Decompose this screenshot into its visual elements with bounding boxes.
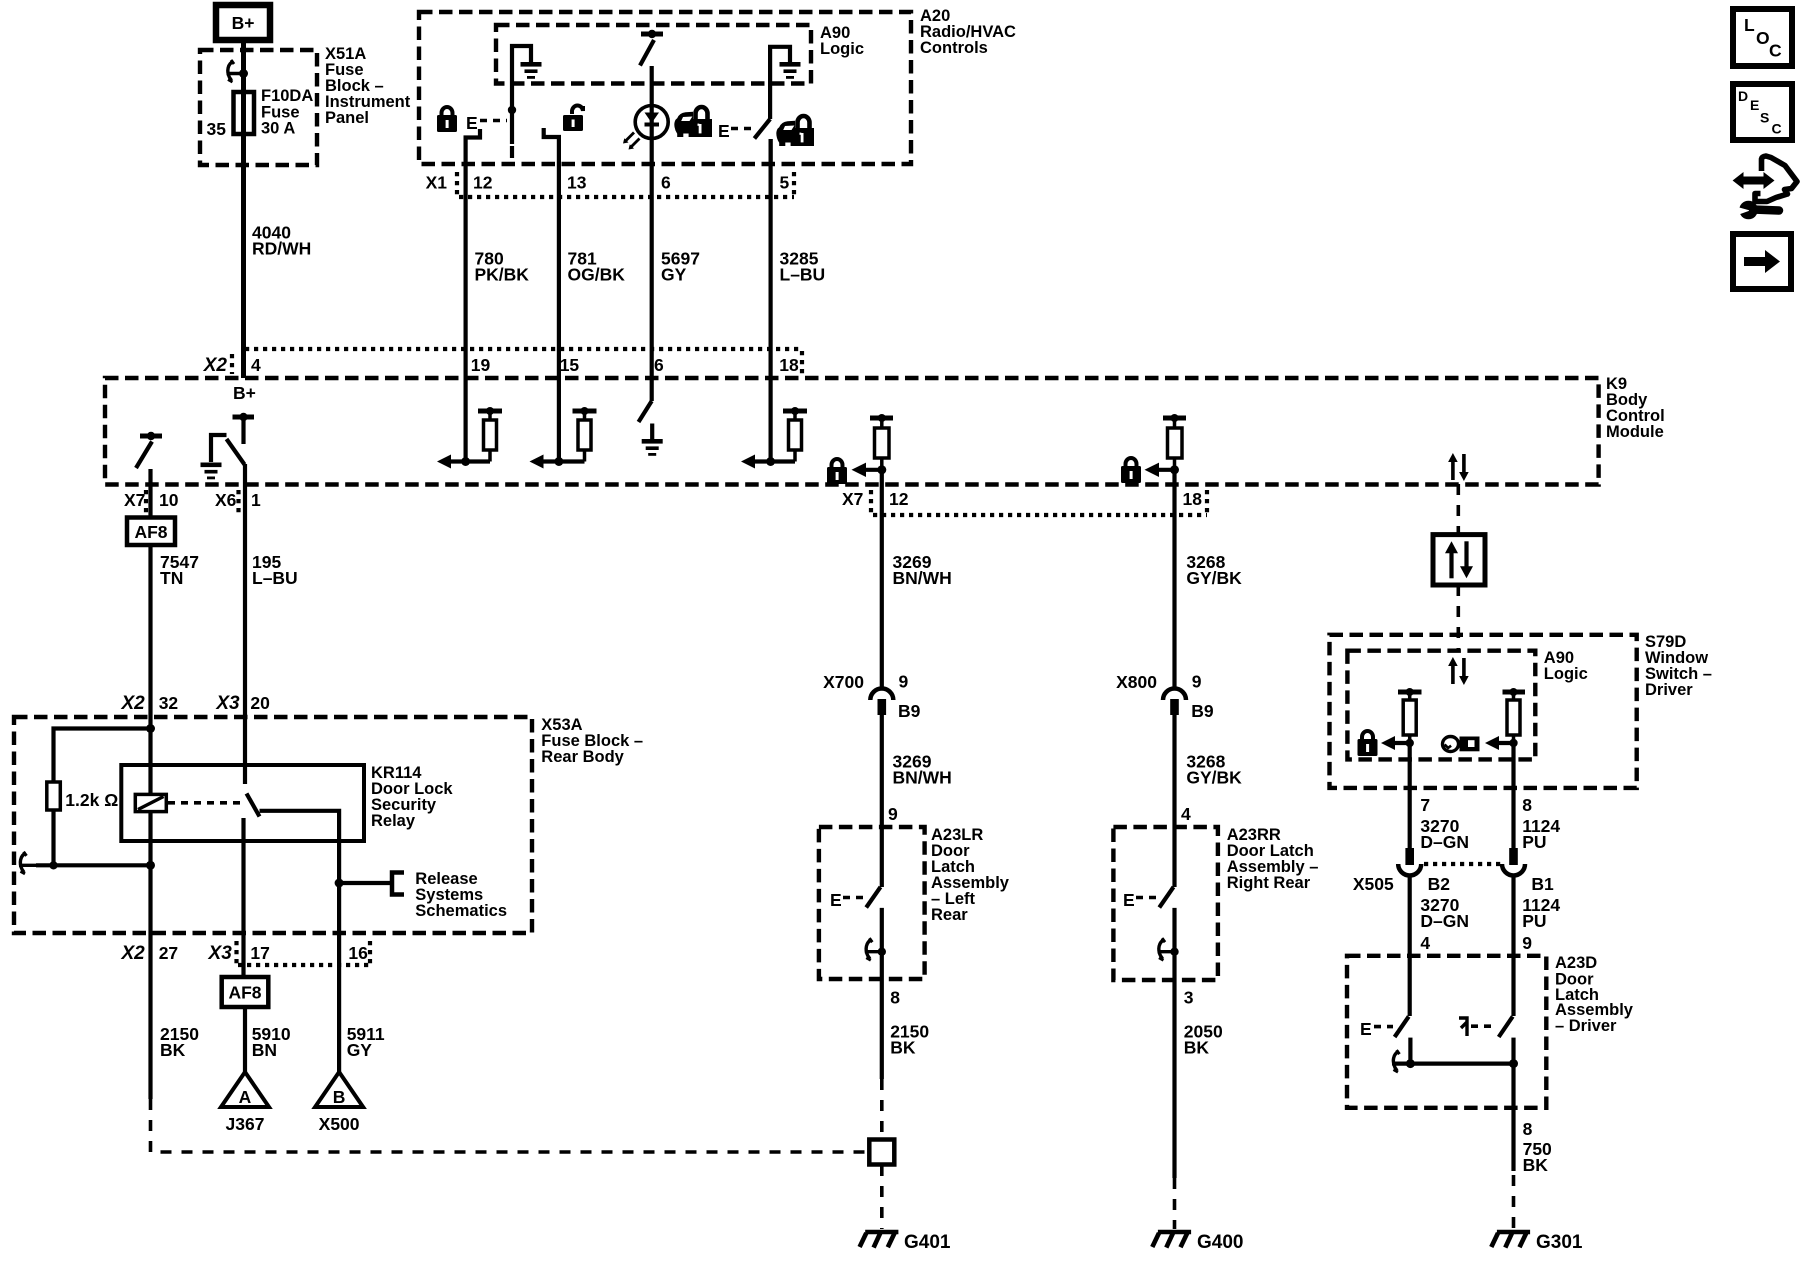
AF8 inline fuse box bottom [222,977,269,1007]
svg-text:6: 6 [654,355,664,375]
wire 5911 GY [337,933,341,1072]
fuse F10DA rectangle [234,92,255,134]
relay output branch to pin 16 [260,811,340,933]
wire 1124 PU lower / pin 9 [1514,876,1561,957]
wire through fuse [241,92,246,134]
svg-text:10: 10 [159,490,179,510]
svg-text:18: 18 [779,355,799,375]
svg-text:X3: X3 [215,693,240,714]
svg-text:12: 12 [889,489,909,509]
svg-text:Module: Module [1606,423,1664,441]
wire 5910 BN [243,1007,247,1072]
A23RR latch pawl contact [1158,938,1179,960]
svg-text:D–GN: D–GN [1420,832,1469,852]
S79D key-unlock driver [1485,688,1525,788]
ground G400 [1152,1232,1243,1253]
svg-text:L: L [1744,15,1755,35]
svg-text:G301: G301 [1536,1232,1583,1253]
legend icon right-arrow box [1733,234,1791,289]
svg-text:GY: GY [347,1040,373,1060]
svg-text:E: E [466,113,478,133]
BCM lock driver (pin 18 right) [1145,414,1187,484]
wire into X53A down to coil [148,717,152,794]
BCM internal relay contact to ground (X6/1) [201,413,255,484]
wire 2050 BK [1172,980,1176,1178]
svg-text:E: E [1360,1019,1372,1039]
svg-text:20: 20 [250,693,270,713]
svg-text:PK/BK: PK/BK [475,265,530,285]
svg-text:GY/BK: GY/BK [1186,768,1242,788]
car lock icon left [674,107,712,137]
relay armature blade [247,794,260,817]
svg-text:Logic: Logic [1544,665,1588,683]
svg-text:1: 1 [251,490,261,510]
svg-text:C: C [1772,121,1782,137]
svg-text:35: 35 [207,119,227,139]
wire 195 upper segment into relay [243,717,247,784]
svg-text:A: A [239,1087,252,1107]
svg-text:1.2k Ω: 1.2k Ω [65,790,118,810]
svg-text:BN/WH: BN/WH [893,768,952,788]
resistor 1.2k ohm [47,782,61,810]
svg-text:GY/BK: GY/BK [1186,568,1242,588]
relay mechanical dashed link [168,801,240,805]
wire 3270 D-GN lower / pin 4 [1410,876,1469,957]
BCM driver output pin 19 [437,378,502,469]
svg-text:J367: J367 [226,1114,265,1134]
splice junction box [869,1140,894,1165]
svg-text:Rear Body: Rear Body [541,748,624,766]
svg-text:RD/WH: RD/WH [252,239,311,259]
svg-text:BK: BK [890,1038,916,1058]
svg-text:E: E [718,121,730,141]
svg-text:15: 15 [560,355,580,375]
label X51A Fuse Block - Instrument Panel [325,45,411,127]
closed padlock icon at pin-18 driver [1121,458,1141,483]
legend icon DESC box [1733,84,1792,140]
svg-text:X6: X6 [215,490,237,510]
svg-text:Schematics: Schematics [415,902,507,920]
svg-text:L–BU: L–BU [252,568,298,588]
wire 3268 GY/BK upper [1172,484,1176,688]
wire 7547 TN [148,545,152,717]
svg-text:Driver: Driver [1645,681,1693,699]
wire 3269 BN/WH lower [880,715,884,827]
pin 8 / wire 1124 PU upper [1514,788,1561,852]
inline connector X800 pin 9/B9 [1116,672,1214,722]
svg-text:B9: B9 [1191,701,1214,721]
closed padlock icon in S79D [1358,731,1378,756]
dashed to G301 [1512,1175,1516,1229]
A23D common bus with pawl [1392,1050,1518,1072]
wire 195 lower segment out of relay [241,818,245,933]
wire A20 pin 6 (5697 GY) [650,138,654,378]
X7 connector bracket under BCM right (pins 12,18) [842,489,1207,515]
B+ battery feed box [216,5,270,40]
svg-text:AF8: AF8 [228,983,261,1003]
svg-text:Rear: Rear [931,906,968,924]
bottom branch line with pawl contact [19,852,155,874]
svg-text:8: 8 [1523,1119,1533,1139]
junction dot [239,69,248,78]
svg-text:30 A: 30 A [261,120,295,138]
svg-text:OG/BK: OG/BK [568,265,626,285]
dashed to G401 [880,1165,884,1229]
label A23LR Door Latch Assembly - Left Rear [931,826,1010,924]
svg-text:32: 32 [159,693,179,713]
svg-text:B2: B2 [1428,874,1451,894]
svg-text:Right Rear: Right Rear [1227,874,1311,892]
svg-text:4: 4 [1420,933,1430,953]
ground G301 [1491,1232,1583,1253]
svg-text:X500: X500 [319,1114,360,1134]
window logic up/down arrows in S79D [1448,657,1469,685]
legend icon LOC box [1733,9,1792,66]
wire X3/17 to AF8 [241,933,245,977]
release systems tap [335,873,404,895]
svg-text:9: 9 [1522,933,1532,953]
A23RR lock switch [1123,827,1175,980]
label X53A Fuse Block - Rear Body [541,716,643,766]
A20 right internal ground [770,47,800,119]
svg-text:X505: X505 [1353,874,1394,894]
ground G401 [860,1232,951,1253]
svg-text:Panel: Panel [325,109,369,127]
svg-text:BK: BK [160,1040,186,1060]
wire through coil to X2/27 [148,812,152,933]
svg-text:X7: X7 [124,490,145,510]
label S79D Window Switch - Driver [1645,633,1712,699]
svg-text:5: 5 [780,173,790,193]
label A23D Door Latch Assembly - Driver [1555,954,1634,1035]
svg-text:D: D [1738,88,1748,104]
svg-text:D–GN: D–GN [1420,911,1469,931]
svg-text:O: O [1756,28,1770,48]
connector triangle B (X500) [315,1072,363,1134]
BCM lock driver (X7/12) [852,414,894,484]
X2 connector row (BCM top) [203,349,802,376]
wire 3268 GY/BK lower [1172,715,1176,827]
S79D lock output driver [1381,688,1422,788]
label A23RR Door Latch Assembly - Right Rear [1227,826,1319,892]
BCM internal switch left (X7/10) [136,432,162,484]
svg-text:4: 4 [1181,804,1191,824]
wire 3269 BN/WH upper [880,484,884,688]
dashed wire BCM to window switch [1457,484,1461,535]
svg-text:6: 6 [661,173,671,193]
svg-text:B1: B1 [1531,874,1554,894]
unlocked padlock icon (pin 13) [563,105,583,131]
pawl contact at fuse feed [227,60,244,82]
svg-text:X2: X2 [120,943,145,964]
wire 2150 BK right [880,979,884,1079]
BCM window logic up/down arrows [1448,453,1469,481]
connector triangle A (J367) [221,1072,269,1134]
X2/32 X3/20 connector row [120,693,270,714]
A20 left internal ground [512,46,542,110]
A23LR Door Latch Assembly dashed box [819,827,925,979]
unlock command switch (pin 5) [754,119,770,164]
svg-text:9: 9 [899,672,909,692]
svg-text:18: 18 [1183,489,1203,509]
svg-text:G400: G400 [1197,1232,1243,1253]
svg-text:X700: X700 [823,672,864,692]
label Release Systems Schematics [415,870,507,920]
relay coil [135,794,166,811]
X53A Fuse Block - Rear Body dashed box [14,717,532,933]
AF8 inline fuse box top [127,518,175,546]
svg-text:C: C [1769,41,1782,61]
svg-text:7: 7 [1420,795,1430,815]
closed padlock icon (lock) [437,107,457,132]
svg-text:12: 12 [473,173,493,193]
label KR114 Door Lock Security Relay [371,764,453,830]
X1 connector row [426,172,794,197]
wire 4040 RD/WH [241,134,246,378]
X2/27 X3/17 16 connector row [120,941,370,965]
pin 7 / wire 3270 D-GN upper [1410,788,1469,852]
svg-text:3: 3 [1184,988,1194,1008]
A23D Door Latch Assembly - Driver dashed box [1347,956,1546,1108]
svg-text:– Driver: – Driver [1555,1017,1617,1035]
legend icon double-arrow with wrench [1733,156,1797,219]
svg-text:9: 9 [1192,672,1202,692]
junction dot to resistor branch [146,724,155,733]
wire pin 8 750 BK [1514,1064,1553,1175]
inline connector X700 pin 9/B9 [823,672,921,722]
A23RR Door Latch Assembly dashed box [1113,827,1218,980]
svg-text:4: 4 [251,355,261,375]
wire B+ to fuse [241,40,246,92]
A23D lock switch left [1360,956,1410,1064]
svg-text:Logic: Logic [820,40,864,58]
label F10DA Fuse 30 A [261,87,313,138]
A23LR latch pawl contact [865,938,886,960]
svg-text:17: 17 [250,943,269,963]
wire X7/10 to AF8 [148,484,152,518]
svg-text:27: 27 [159,943,178,963]
svg-text:Relay: Relay [371,812,416,830]
svg-text:L–BU: L–BU [780,265,826,285]
svg-text:X1: X1 [426,173,448,193]
svg-text:AF8: AF8 [134,522,167,542]
A23D key switch right [1459,956,1514,1064]
svg-text:PU: PU [1522,911,1546,931]
K9 Body Control Module dashed box [105,378,1599,485]
wire A20 pin 13 [544,128,559,378]
inline connector X505 B1 [1502,848,1554,894]
svg-text:E: E [830,890,842,910]
dashed to G400 [1173,1178,1177,1229]
svg-text:B+: B+ [233,383,256,403]
svg-text:TN: TN [160,568,183,588]
svg-text:19: 19 [471,355,491,375]
A20 Radio/HVAC Controls dashed box [419,12,911,164]
label K9 Body Control Module [1606,375,1665,441]
car lock icon right [776,116,814,146]
svg-text:Controls: Controls [920,39,988,57]
svg-text:B9: B9 [898,701,921,721]
X505 dashed connector line [1424,862,1501,866]
key icon in S79D [1443,737,1480,752]
wire 195 L-BU [243,484,247,717]
wire A20 pin 12 [466,129,480,378]
svg-text:F10DA: F10DA [261,87,313,105]
svg-text:BK: BK [1184,1038,1210,1058]
A90 Logic inner dashed box (S79D) [1347,651,1535,760]
KR114 Door Lock Security Relay solid box [121,765,364,841]
svg-text:BN/WH: BN/WH [893,568,952,588]
A90 Logic inner dashed box (A20) [496,25,811,84]
window motor double-arrow box [1433,535,1485,585]
E logic tag for unlock switch [718,121,753,141]
dashed 2150 BK to splice [151,1099,870,1152]
BCM driver output pin 15 [530,378,597,469]
X7 / X6 connector labels under BCM left [124,490,261,514]
svg-text:E: E [1750,97,1759,113]
BCM driver output pin 18 [741,378,807,469]
svg-text:X2: X2 [120,693,145,714]
svg-text:X3: X3 [208,943,233,964]
wire below 1.2k resistor [51,810,55,865]
LED indicator (security lamp) [623,106,668,150]
wire A20 pin 5 (3285 L-BU) [768,139,772,378]
svg-text:X2: X2 [203,355,228,376]
svg-text:S: S [1760,110,1769,126]
X51A fuse block dashed box [200,50,317,165]
svg-text:G401: G401 [904,1232,951,1253]
svg-text:B: B [333,1087,346,1107]
LED indicator top switch [640,30,663,105]
svg-text:X7: X7 [842,489,863,509]
A20 lock command switch (pin 12 circuit) [508,106,516,158]
BCM internal switch to ground pin 6 [639,378,663,456]
svg-text:PU: PU [1522,832,1546,852]
svg-text:BN: BN [252,1040,277,1060]
svg-text:9: 9 [888,804,898,824]
svg-text:8: 8 [890,988,900,1008]
A23LR lock switch [830,827,882,979]
closed padlock icon at BCM lock driver [827,459,847,484]
svg-text:BK: BK [1523,1155,1549,1175]
inline connector X505 B2 [1353,848,1450,894]
svg-text:X800: X800 [1116,672,1157,692]
svg-text:A23D: A23D [1555,954,1597,972]
S79D Window Switch - Driver dashed box [1330,635,1637,788]
dashed wire to S79D [1457,585,1461,651]
wire X2/27 to 2150 BK [148,933,152,1099]
svg-text:B+: B+ [232,13,255,33]
E logic tag for lock switch [466,113,507,133]
svg-text:GY: GY [661,265,687,285]
svg-text:8: 8 [1522,795,1532,815]
svg-text:16: 16 [348,943,368,963]
dashed to splice [880,1079,884,1139]
svg-text:E: E [1123,890,1135,910]
branch to 1.2k resistor [54,729,151,783]
svg-text:13: 13 [567,173,587,193]
label A20 Radio/HVAC Controls [920,7,1016,57]
